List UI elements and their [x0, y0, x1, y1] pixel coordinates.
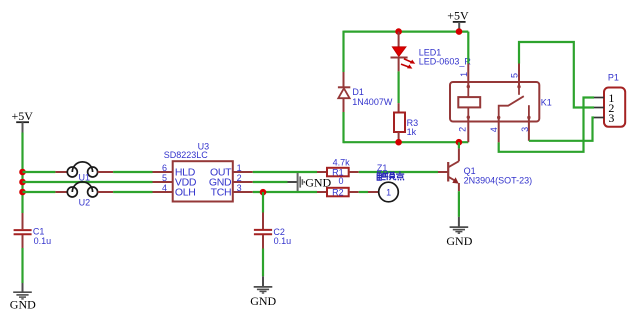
svg-text:R2: R2 — [332, 188, 344, 198]
wire bottom rail D1/R3/Q1/K1pin2 — [344, 141, 469, 143]
wire K1 pin5 to P1 pin2 — [519, 42, 594, 108]
ground GND under C2 — [250, 276, 276, 308]
junction rail-VDD — [19, 179, 26, 186]
wire U2 to U3 pin4 — [113, 191, 152, 193]
power +5V left — [11, 109, 33, 132]
connector P1 — [604, 73, 625, 127]
svg-text:SD8223LC: SD8223LC — [164, 150, 209, 160]
transistor Q1 2N3904 — [438, 148, 532, 191]
wire K1 pin4 to P1 pin1 — [499, 98, 594, 152]
wire R1 to Q1 base — [359, 171, 438, 173]
relay K1 — [450, 82, 552, 122]
wire TCH to R2 — [253, 191, 317, 193]
svg-text:0.1u: 0.1u — [34, 236, 52, 246]
wire C2 to GND — [262, 249, 264, 277]
wire left +5V rail vertical — [21, 133, 23, 214]
capacitor C2 — [254, 192, 291, 249]
svg-text:2N3904(SOT-23): 2N3904(SOT-23) — [464, 176, 533, 186]
svg-text:1k: 1k — [407, 127, 417, 137]
junction rail +5V — [456, 28, 463, 35]
touch pad Z1 — [368, 163, 398, 202]
wire rail to U1 — [23, 171, 56, 173]
svg-text:1N4007W: 1N4007W — [352, 97, 393, 107]
svg-text:2: 2 — [458, 127, 468, 132]
svg-text:5: 5 — [162, 173, 167, 183]
junction TCH-C2 — [260, 189, 267, 196]
svg-text:3: 3 — [608, 111, 614, 125]
wire OUT to R1 — [253, 171, 317, 173]
svg-text:Z1: Z1 — [377, 163, 388, 173]
wire LED1 to R3 — [398, 71, 400, 103]
svg-text:Q1: Q1 — [464, 166, 476, 176]
svg-text:4.7k: 4.7k — [333, 158, 351, 168]
wire U1 to U3 pin6 — [113, 171, 152, 173]
P1 pin 1 — [594, 97, 604, 99]
svg-text:U2: U2 — [79, 198, 91, 208]
junction rail-Q1 collector — [456, 139, 463, 146]
svg-text:+5V: +5V — [11, 109, 33, 123]
svg-text:GND: GND — [10, 298, 36, 312]
capacitor C1 — [14, 213, 52, 248]
svg-text:K1: K1 — [541, 97, 552, 107]
U3 pin 4 — [153, 183, 173, 193]
resistor R3 — [394, 103, 418, 142]
wire Q1 emitter to GND — [458, 191, 460, 217]
wire D1 bottom — [342, 112, 344, 143]
wire GND pin to flag — [253, 181, 288, 183]
net flag GND (sideways) — [288, 173, 332, 191]
svg-text:4: 4 — [489, 127, 499, 132]
K1 pin 3 — [520, 118, 530, 141]
svg-text:1: 1 — [237, 163, 242, 173]
K1 pin 4 — [489, 118, 499, 143]
diode D1 1N4007W — [338, 72, 393, 112]
jumper U1 — [55, 162, 113, 183]
svg-text:OLH: OLH — [175, 187, 196, 199]
svg-text:2: 2 — [237, 173, 242, 183]
svg-text:6: 6 — [162, 163, 167, 173]
svg-text:3: 3 — [237, 183, 242, 193]
ground GND left — [10, 283, 36, 312]
junction rail-LED1 — [395, 28, 402, 35]
junction rail-R3 — [395, 139, 402, 146]
svg-text:0.1u: 0.1u — [274, 236, 292, 246]
IC U3 SD8223LC — [164, 142, 233, 202]
wire top rail — [344, 31, 469, 33]
wire D1 top — [342, 31, 344, 72]
P1 pin 3 — [594, 117, 604, 119]
svg-text:4: 4 — [162, 183, 167, 193]
svg-text:+5V: +5V — [447, 9, 469, 23]
svg-text:5: 5 — [510, 73, 520, 78]
junction rail-OLH — [19, 189, 26, 196]
wire R2 to Z1 — [359, 191, 368, 193]
svg-text:1: 1 — [459, 72, 469, 77]
LED LED1 — [391, 32, 472, 72]
K1 pin 2 — [458, 117, 469, 142]
svg-text:0: 0 — [338, 176, 343, 186]
wire rail to U3 pin5 — [23, 181, 153, 183]
resistor R1 — [317, 158, 359, 178]
svg-text:LED-0603_R: LED-0603_R — [419, 56, 472, 66]
svg-text:3: 3 — [520, 127, 530, 132]
wire C1 to GND — [21, 248, 23, 283]
ground GND under Q1 — [446, 217, 472, 248]
wire K1 pin3 to P1 pin3 — [529, 118, 594, 141]
wire Q1 collector — [458, 142, 460, 148]
svg-text:C1: C1 — [33, 227, 45, 237]
K1 pin 5 — [510, 64, 520, 87]
P1 pin 2 — [594, 107, 604, 109]
svg-text:GND: GND — [250, 294, 276, 308]
U3 pin 1 — [233, 163, 253, 173]
junction rail-HLD — [19, 169, 26, 176]
U3 pin 3 — [233, 183, 253, 193]
power +5V right — [447, 9, 469, 32]
svg-text:1: 1 — [386, 188, 391, 198]
jumper U2 — [55, 182, 113, 208]
U3 pin 5 — [153, 173, 173, 183]
U3 pin 2 — [233, 173, 253, 183]
resistor R2 — [317, 176, 359, 198]
svg-text:GND: GND — [446, 234, 472, 248]
svg-text:P1: P1 — [608, 73, 619, 83]
U3 pin 6 — [153, 163, 173, 173]
svg-text:TCH: TCH — [211, 187, 232, 199]
svg-text:D1: D1 — [352, 87, 364, 97]
wire rail to U2 — [23, 191, 56, 193]
K1 pin 1 — [459, 64, 469, 87]
value label 触摸点 for Z1 — [377, 171, 404, 180]
wire +5V rail to K1 pin1 — [467, 32, 469, 64]
